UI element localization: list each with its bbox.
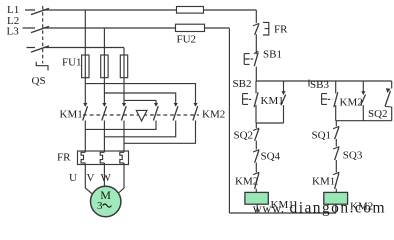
svg-text:QS: QS — [32, 75, 46, 87]
svg-text:diangon.com: diangon.com — [290, 200, 386, 217]
svg-text:KM2: KM2 — [202, 108, 225, 120]
svg-text:FR: FR — [57, 152, 71, 164]
svg-text:SQ4: SQ4 — [261, 151, 281, 163]
svg-text:SB1: SB1 — [263, 49, 282, 61]
svg-text:U: U — [69, 172, 77, 184]
svg-text:KM1: KM1 — [312, 176, 335, 188]
svg-text:FU1: FU1 — [62, 57, 82, 69]
svg-text:SQ1: SQ1 — [312, 130, 332, 142]
svg-text:SQ2: SQ2 — [234, 130, 254, 142]
svg-text:3: 3 — [97, 200, 103, 212]
svg-text:SQ3: SQ3 — [343, 150, 363, 162]
svg-text:KM1: KM1 — [60, 109, 83, 121]
svg-text:SB2: SB2 — [233, 78, 252, 90]
svg-text:V: V — [87, 172, 95, 184]
svg-text:W: W — [101, 172, 112, 184]
svg-text:KM2: KM2 — [235, 176, 258, 188]
svg-text:SB3: SB3 — [310, 79, 329, 91]
svg-text:KM2: KM2 — [340, 97, 363, 109]
svg-text:FU2: FU2 — [177, 34, 197, 46]
svg-text:KM1: KM1 — [261, 95, 284, 107]
svg-text:FR: FR — [274, 24, 288, 36]
svg-text:www.: www. — [253, 201, 285, 215]
svg-text:L3: L3 — [7, 26, 20, 38]
svg-text:SQ2: SQ2 — [368, 108, 388, 120]
